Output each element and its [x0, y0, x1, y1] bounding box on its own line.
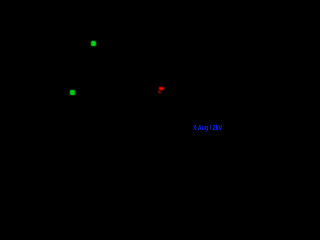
blue timestamp text: [193, 123, 222, 132]
green LED 1 dark notch: [92, 43, 93, 44]
green LED 1 (top center): [91, 41, 96, 46]
red LED upper blob: [159, 87, 164, 90]
green LED 2 (lower left): [70, 90, 75, 96]
red LED lower blob: [158, 91, 161, 93]
green LED 2 dark midline: [71, 91, 74, 94]
